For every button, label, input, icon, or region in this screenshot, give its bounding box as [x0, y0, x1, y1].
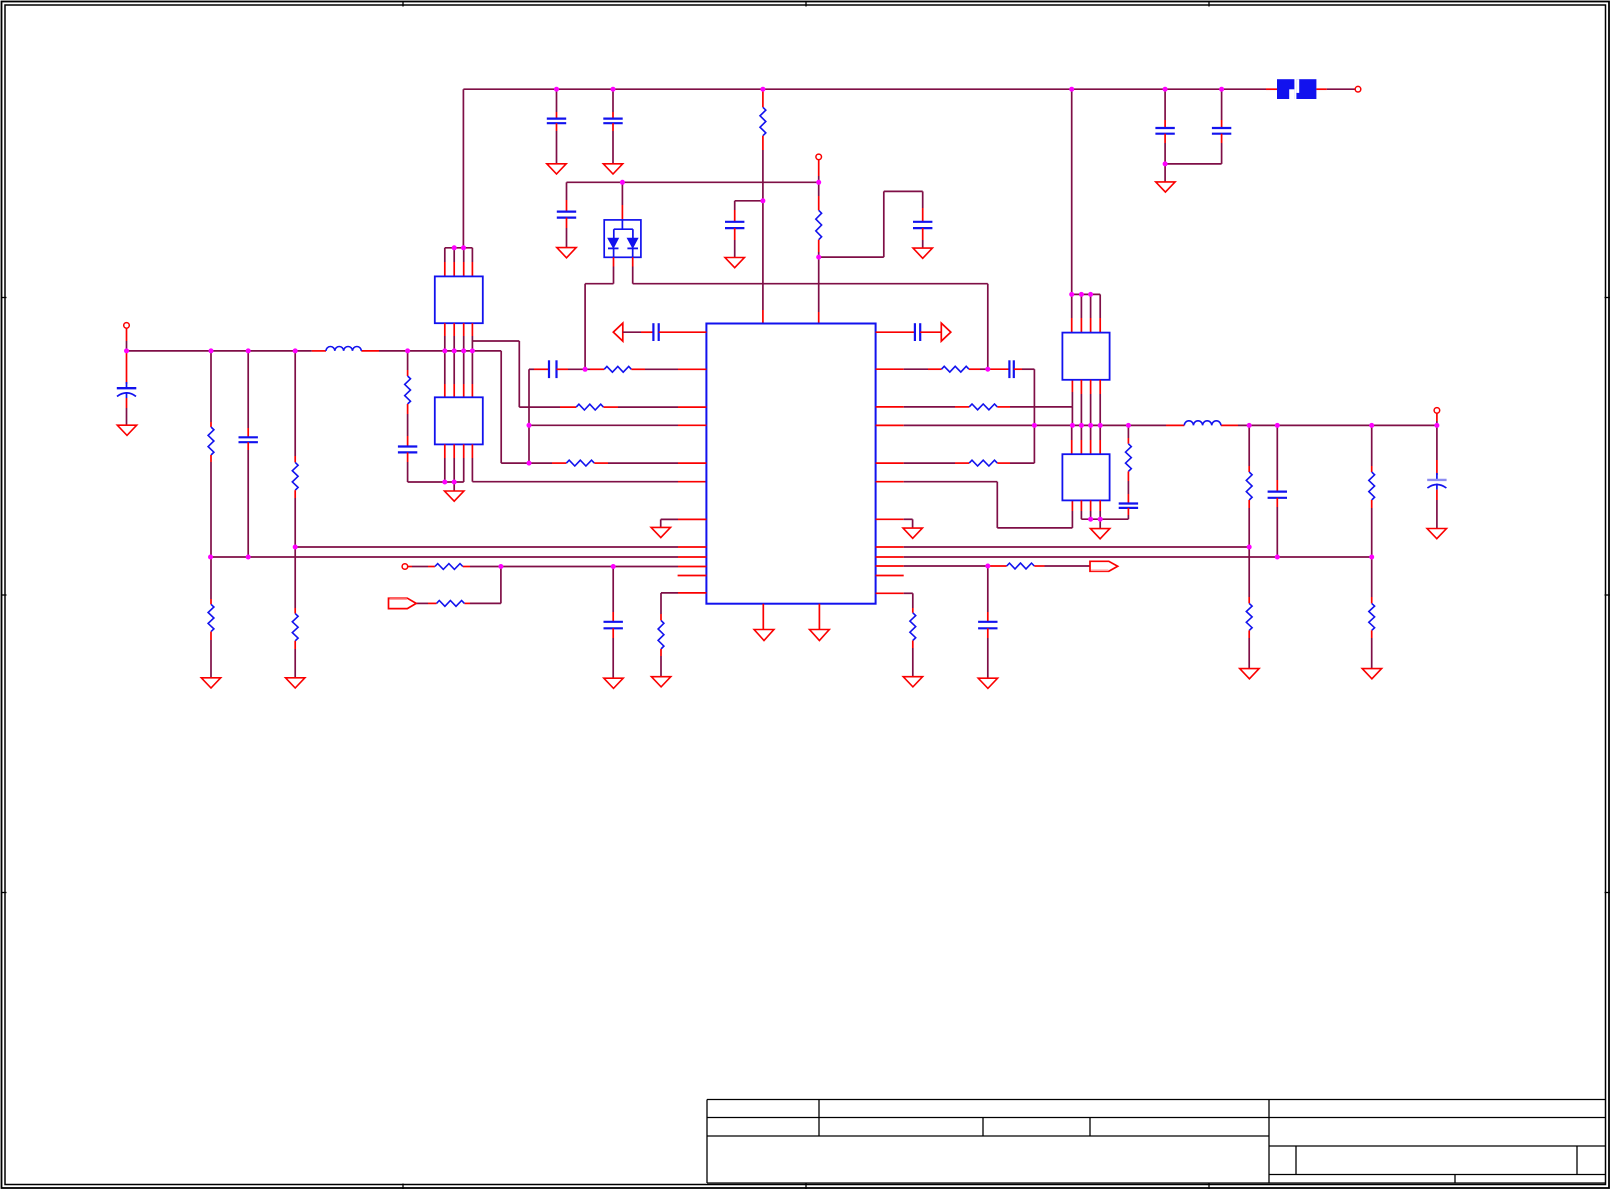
- wire U5 pins 2-4 bottom: [1081, 500, 1100, 519]
- capacitor C19 polarized: [1427, 480, 1446, 490]
- wire D1 right out: [633, 257, 988, 369]
- terminal J4: [402, 564, 408, 570]
- resistor R22: [1369, 472, 1375, 500]
- wire R10 to IC: [594, 462, 706, 464]
- wire connector bus 248: [445, 247, 473, 249]
- wire net 519: [1081, 518, 1128, 520]
- diode pack D1 internal wiring: [614, 220, 633, 257]
- wire IC pin519 left: [661, 519, 707, 527]
- wire net425 left: [529, 424, 706, 426]
- capacitor C3: [725, 222, 744, 228]
- wire IC to R15: [876, 406, 970, 408]
- wire net482 right: [876, 482, 1073, 528]
- wire U5 top pins: [1072, 425, 1101, 454]
- wire U4 top pins: [1072, 294, 1101, 332]
- wire R19 to C17: [1127, 471, 1129, 503]
- wire R6 bottom lead: [294, 641, 296, 678]
- diode D1b: [627, 238, 638, 248]
- capacitor C4: [913, 222, 932, 228]
- wire C1 top lead: [556, 89, 558, 118]
- ground under U5: [1090, 529, 1109, 539]
- wire R18 bottom lead: [912, 641, 914, 677]
- wire C8 bottom lead: [126, 398, 128, 425]
- wire U4 pin1 riser: [1071, 407, 1073, 426]
- ground under C2: [603, 164, 622, 174]
- ground at IC pin519 right: [903, 528, 922, 538]
- wire fuse left lead: [1266, 88, 1277, 90]
- resistor R1: [760, 107, 766, 135]
- capacitor C14: [915, 323, 920, 341]
- wire C5 bottom lead: [566, 218, 568, 248]
- diode pack D1 box: [604, 220, 641, 257]
- wire R2 to IC pin: [818, 240, 820, 324]
- wire R14 to C15: [969, 368, 1009, 370]
- wire R22 bottom lead: [1371, 500, 1373, 557]
- wire net425 right: [876, 424, 1437, 426]
- wire R12 to P1: [416, 602, 436, 604]
- resistor R23: [1369, 603, 1375, 630]
- wire net 482 left: [408, 481, 464, 483]
- capacitor C18: [1268, 492, 1287, 498]
- resistor R19: [1126, 444, 1132, 472]
- wire C2 top lead: [612, 89, 614, 118]
- wire R1 top lead: [762, 89, 764, 107]
- wire riser 529: [528, 369, 530, 463]
- wire C10 bottom lead: [407, 452, 409, 482]
- wire C14 to A2: [920, 331, 941, 333]
- capacitor C8 polarized: [117, 388, 137, 398]
- resistor R12: [437, 601, 465, 607]
- ground under C8: [117, 425, 136, 435]
- wire R4 bottom lead: [210, 632, 212, 678]
- wire R5 bottom lead: [294, 490, 296, 547]
- wire C16 branch: [987, 566, 989, 622]
- resistor R11: [435, 564, 463, 570]
- connector U2: [435, 276, 483, 323]
- output arrow A2: [941, 323, 951, 341]
- resistor R4: [208, 604, 214, 631]
- wire net 482 to IC: [472, 481, 706, 483]
- resistor R15: [969, 404, 997, 410]
- resistor R14: [942, 366, 970, 372]
- capacitor C17: [1119, 504, 1138, 508]
- capacitor C7: [1212, 128, 1231, 134]
- wire R13 bottom lead: [660, 649, 662, 677]
- wire C15 to riser: [1014, 369, 1035, 463]
- wire D1 top lead: [621, 182, 623, 220]
- wire R20 top lead: [1248, 425, 1250, 472]
- ground under C4: [913, 248, 932, 258]
- terminal J3: [124, 323, 130, 329]
- wire C1 bottom lead: [556, 123, 558, 164]
- wire R6 link: [294, 547, 296, 614]
- resistor R5: [292, 462, 298, 490]
- wire C13 bottom lead: [612, 628, 614, 678]
- IC U1: [706, 324, 875, 604]
- capacitor C15: [1009, 360, 1013, 378]
- terminal J2: [1355, 86, 1361, 92]
- pin stub left 575: [678, 575, 707, 577]
- wire U2 top pins: [445, 248, 473, 277]
- wire J3 down: [126, 328, 128, 351]
- resistor R8: [604, 366, 631, 372]
- ground under R13: [651, 677, 670, 687]
- resistor R16: [969, 460, 997, 466]
- ground under U3: [445, 491, 464, 501]
- wire bus2 left: [211, 556, 707, 558]
- port P2: [1090, 561, 1118, 571]
- wire IC to net566: [876, 565, 1007, 567]
- wire rail drop at 1071: [1071, 89, 1073, 294]
- wire C19 bottom lead: [1436, 490, 1438, 529]
- wire fuse right lead: [1316, 88, 1355, 90]
- resistor R21: [1246, 603, 1252, 630]
- wire C19 top lead: [1436, 425, 1438, 480]
- wire gnd stub 1100: [1099, 519, 1101, 528]
- wire R11 to IC: [463, 566, 707, 568]
- wire R1 to IC pin: [762, 136, 764, 324]
- resistor R6: [292, 614, 298, 641]
- wire C7 top lead: [1221, 89, 1223, 128]
- wire R8 to IC: [631, 368, 706, 370]
- wire R22 top lead: [1371, 425, 1373, 472]
- pin stub right 575: [876, 575, 904, 577]
- wire connector bus 294: [1072, 293, 1101, 295]
- title block: [707, 1100, 1606, 1184]
- wire IC to R14: [876, 368, 942, 370]
- wire J1 down: [818, 160, 820, 211]
- ground under C16: [978, 678, 997, 688]
- wire R17 to P2: [1034, 565, 1090, 567]
- ground under C19: [1427, 529, 1446, 539]
- wire C17 bottom lead: [1127, 508, 1129, 519]
- wire bus2 right: [876, 556, 1372, 558]
- wire U2 pin4 branch: [472, 341, 519, 407]
- capacitor C9: [239, 437, 258, 442]
- terminal J1: [816, 154, 822, 160]
- capacitor C16: [978, 622, 997, 629]
- fuse F1: [1277, 79, 1316, 99]
- wire C18 bottom lead: [1276, 498, 1278, 557]
- ground under IC pin1: [754, 630, 774, 641]
- wire C7 bottom lead: [1165, 134, 1222, 164]
- ground under C6 C7: [1156, 182, 1175, 192]
- ground under R18: [903, 677, 922, 687]
- wire U3 bottom pins: [445, 444, 473, 482]
- wire C2 bottom lead: [612, 123, 614, 164]
- ground under C3: [725, 258, 744, 268]
- wire IC to R16: [876, 462, 970, 464]
- wire R7 top lead: [407, 351, 409, 376]
- ground under R21: [1240, 669, 1259, 679]
- wire C9 top lead: [247, 351, 249, 437]
- resistor R7: [405, 376, 411, 404]
- wire C12 to R8: [557, 368, 605, 370]
- resistor R13: [658, 620, 664, 649]
- capacitor C12: [549, 360, 557, 378]
- wire IC to C14: [876, 331, 915, 333]
- wire R20 bottom lead: [1248, 500, 1250, 547]
- capacitor C5: [557, 212, 576, 218]
- wire IC pin593 left: [661, 593, 706, 621]
- wire R21 bottom lead: [1248, 630, 1250, 668]
- wire C11 to IC: [659, 331, 707, 333]
- capacitor C6: [1155, 128, 1174, 134]
- wire C4 bottom lead: [922, 228, 924, 248]
- wire R5 top lead: [294, 351, 296, 463]
- ground under R6: [286, 678, 305, 688]
- wire R19 top lead: [1127, 425, 1129, 443]
- resistor R18: [910, 613, 916, 641]
- wire main net 351: [127, 350, 502, 352]
- wire C6 top lead: [1164, 89, 1166, 128]
- wire C16 bottom lead: [987, 628, 989, 678]
- wire U3 top pins: [445, 351, 473, 397]
- wire net463 left: [501, 462, 566, 464]
- capacitor C1: [547, 119, 566, 124]
- ground under C5: [557, 248, 576, 258]
- wire port P1 branch: [464, 567, 501, 604]
- wire bus1 right: [876, 546, 1250, 548]
- wire R23 bottom lead: [1371, 630, 1373, 668]
- wire C3 bottom lead: [734, 228, 736, 257]
- ground under C1: [547, 164, 566, 174]
- wire IC pin519 right: [876, 519, 913, 528]
- inductor L1: [326, 346, 361, 350]
- wire R3 bottom lead: [210, 455, 212, 557]
- ground under R4: [201, 678, 220, 688]
- port P1: [389, 598, 417, 608]
- capacitor C2: [603, 119, 622, 124]
- capacitor C13: [604, 622, 623, 629]
- inductor L2: [1184, 421, 1221, 426]
- resistor R10: [566, 460, 594, 466]
- wire A1 to C11: [623, 331, 654, 333]
- ground under R23: [1362, 669, 1381, 679]
- wire C6 bottom lead: [1164, 134, 1166, 164]
- input arrow A1: [613, 323, 623, 341]
- wire riser 501: [500, 351, 502, 463]
- wire bus1 left: [295, 546, 706, 548]
- wire R21 link: [1248, 547, 1250, 603]
- connector U4: [1062, 333, 1109, 380]
- wire net 182: [567, 181, 819, 183]
- wire R15 to U4 pin1: [997, 380, 1072, 407]
- wire S-path to C4: [819, 191, 923, 257]
- wire C6 gnd stub: [1164, 164, 1166, 182]
- wire U2 bottom pins: [445, 323, 473, 351]
- wire IC bottom pin2: [818, 604, 820, 630]
- resistor R3: [208, 427, 214, 455]
- wire R4 link: [210, 557, 212, 604]
- terminal J5: [1434, 408, 1440, 414]
- wire net369 left: [529, 368, 549, 370]
- wire C13 branch: [612, 567, 614, 622]
- capacitor C11: [653, 323, 658, 341]
- wire J4 to R11: [408, 566, 435, 568]
- wire U3 pin2 gnd stub: [453, 482, 455, 491]
- connector U3: [435, 397, 483, 444]
- wire R16 to riser: [997, 462, 1034, 464]
- diode D1a: [608, 238, 619, 248]
- wire C8 top lead: [126, 351, 128, 388]
- wire R23 link: [1371, 557, 1373, 603]
- connector U5: [1062, 454, 1109, 500]
- wire C9 bottom lead: [247, 442, 249, 557]
- resistor R17: [1007, 563, 1035, 569]
- wire R9 to IC: [603, 406, 706, 408]
- wire R7 to C10: [407, 404, 409, 447]
- wire top power rail: [463, 88, 1266, 90]
- wire net407 left: [519, 406, 576, 408]
- wire rail drop to connector column: [462, 89, 464, 248]
- wire D1 left out: [585, 257, 613, 369]
- wire C5 drop: [566, 182, 568, 211]
- resistor R20: [1246, 472, 1252, 500]
- wire IC bottom pin1: [762, 604, 764, 630]
- ground under IC pin2: [810, 630, 830, 641]
- wire U4 bottom pins: [1081, 380, 1100, 426]
- wire C3 tap: [735, 201, 763, 222]
- resistor R9: [576, 404, 603, 410]
- wire C18 top lead: [1276, 425, 1278, 491]
- resistor R2: [816, 210, 822, 239]
- ground at IC pin519 left: [651, 527, 670, 537]
- wire IC pin593 right: [876, 593, 913, 613]
- wire R3 top lead: [210, 351, 212, 427]
- wire J5 down: [1436, 413, 1438, 425]
- capacitor C10: [398, 447, 417, 453]
- ground under C13: [604, 678, 623, 688]
